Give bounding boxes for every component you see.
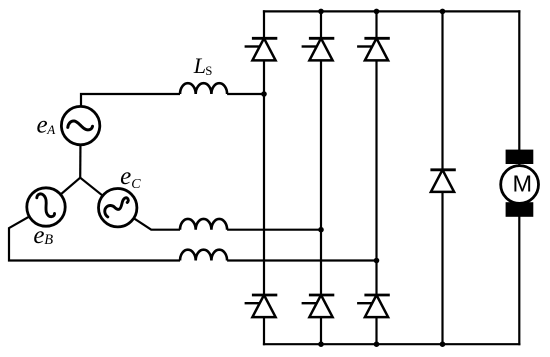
wire bridge leg 1 (phase A) bbox=[263, 10, 265, 345]
node phase B junction bbox=[374, 258, 380, 264]
voltage source eC bbox=[99, 189, 137, 227]
wire motor branch bbox=[518, 10, 520, 345]
svg-text:S: S bbox=[205, 64, 212, 78]
label eA bbox=[37, 112, 56, 139]
wire phase B from source to inductor bbox=[9, 207, 180, 261]
node top rail freewheel bbox=[440, 9, 446, 15]
wire bottom negative rail bbox=[263, 343, 521, 345]
svg-text:e: e bbox=[33, 222, 44, 249]
wire phase A from source to bridge bbox=[81, 94, 180, 126]
wire bridge leg 3 (phase B) bbox=[375, 10, 377, 345]
inductor phase C bbox=[180, 219, 227, 230]
thyristor VT5 (phase B, top) bbox=[357, 38, 390, 60]
wire bridge leg 2 (phase C) bbox=[320, 10, 322, 345]
svg-text:e: e bbox=[37, 112, 48, 139]
svg-text:A: A bbox=[46, 122, 55, 137]
thyristor VT4 (phase A, bottom) bbox=[245, 295, 278, 317]
wire phase C inductor to node C bbox=[227, 229, 321, 231]
voltage source eB bbox=[27, 188, 65, 226]
node top rail leg3 bbox=[374, 9, 380, 15]
svg-text:C: C bbox=[131, 177, 141, 192]
thyristor VT6 (phase C, bottom) bbox=[302, 295, 335, 317]
label eC bbox=[120, 163, 141, 192]
wire star point to source eB bbox=[46, 178, 80, 207]
svg-text:B: B bbox=[44, 232, 53, 248]
inductor phase B bbox=[180, 250, 227, 261]
wire star point to source eA bbox=[79, 126, 82, 178]
wire star point to source eC bbox=[80, 178, 118, 208]
wire phase A inductor to node A bbox=[227, 93, 264, 95]
motor M top brush terminal bbox=[506, 150, 534, 164]
label eB bbox=[33, 222, 53, 249]
svg-text:L: L bbox=[193, 53, 206, 78]
thyristor VT3 (phase C, top) bbox=[302, 38, 335, 60]
inductor LS phase A bbox=[180, 83, 227, 94]
svg-text:M: M bbox=[513, 170, 533, 196]
node top rail leg2 bbox=[318, 9, 324, 15]
node phase A junction bbox=[261, 91, 267, 97]
voltage source eA bbox=[61, 106, 99, 144]
thyristor VT2 (phase B, bottom) bbox=[357, 295, 390, 317]
node bottom rail leg2 bbox=[318, 341, 324, 347]
node phase C junction bbox=[318, 227, 324, 233]
freewheeling diode VD bbox=[430, 170, 455, 192]
label LS bbox=[193, 53, 213, 78]
wire top positive rail bbox=[263, 10, 521, 12]
node bottom rail leg3 bbox=[374, 341, 380, 347]
thyristor VT1 (phase A, top) bbox=[245, 38, 278, 60]
wire phase B inductor to node B bbox=[227, 259, 376, 261]
motor M bbox=[501, 166, 539, 204]
svg-text:e: e bbox=[120, 163, 131, 190]
motor M bottom brush terminal bbox=[506, 202, 534, 217]
wire phase C from source to inductor bbox=[118, 208, 180, 230]
node bottom rail freewheel bbox=[440, 341, 446, 347]
wire freewheeling diode branch bbox=[441, 10, 443, 345]
